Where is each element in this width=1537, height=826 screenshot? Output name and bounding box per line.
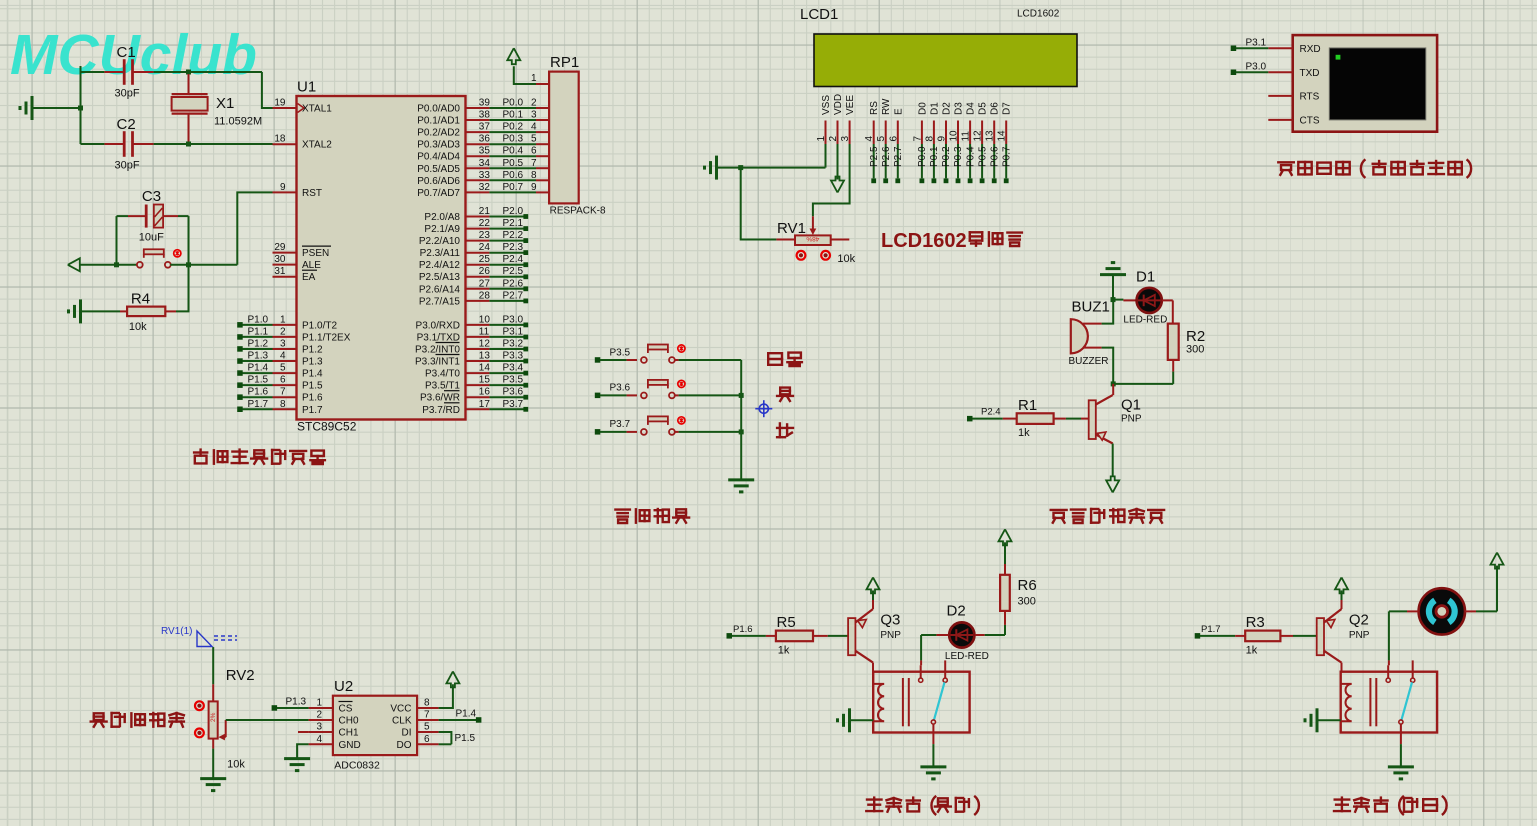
- pin 1 RP1: [536, 83, 549, 85]
- wire P0.3: [957, 144, 959, 178]
- svg-text:P3.4/T0: P3.4/T0: [425, 369, 460, 380]
- svg-text:VEE: VEE: [845, 95, 856, 115]
- pin 30 ALE: [273, 264, 297, 266]
- svg-text:7: 7: [280, 387, 286, 398]
- svg-text:P0.3: P0.3: [953, 146, 964, 167]
- svg-text:24: 24: [479, 242, 491, 253]
- pin 27 P2.6: [466, 288, 490, 290]
- svg-text:P0.1/AD1: P0.1/AD1: [417, 116, 460, 127]
- pin 24 P2.3: [466, 252, 490, 254]
- ground: [715, 156, 718, 180]
- svg-text:Q2: Q2: [1349, 612, 1369, 629]
- svg-text:6: 6: [424, 734, 430, 745]
- svg-text:10k: 10k: [837, 253, 855, 265]
- svg-text:P3.1: P3.1: [1246, 37, 1267, 48]
- resistor R6: [1000, 575, 1010, 611]
- svg-text:9: 9: [280, 182, 286, 193]
- svg-text:RST: RST: [302, 188, 322, 199]
- wire P2.7: [897, 144, 899, 178]
- svg-text:P3.2/INT0: P3.2/INT0: [415, 345, 460, 356]
- pin 8 P1.7: [273, 408, 297, 410]
- svg-text:P1.1/T2EX: P1.1/T2EX: [302, 332, 351, 343]
- svg-text:PNP: PNP: [1121, 414, 1142, 425]
- relay coil: [873, 684, 884, 721]
- svg-text:LCD1602: LCD1602: [881, 230, 967, 252]
- svg-text:P0.4/AD4: P0.4/AD4: [417, 152, 460, 163]
- svg-text:E: E: [893, 108, 904, 115]
- svg-text:P1.6: P1.6: [733, 624, 753, 635]
- svg-text:P2.2/A10: P2.2/A10: [419, 236, 461, 247]
- svg-text:P3.6: P3.6: [503, 387, 524, 398]
- pin 31 EA: [273, 276, 297, 278]
- svg-text:11: 11: [961, 131, 972, 142]
- wire coil ground: [1317, 719, 1341, 721]
- node: [186, 142, 191, 147]
- pin 19 XTAL1: [273, 107, 297, 109]
- wire VSS: [825, 144, 827, 168]
- svg-text:7: 7: [912, 136, 923, 142]
- pin 36 P0.3: [466, 143, 490, 145]
- svg-text:P0.3: P0.3: [503, 134, 524, 145]
- terminal P2.7: [489, 300, 523, 302]
- svg-text:D1: D1: [929, 102, 940, 115]
- pin 38 P0.1: [466, 119, 490, 121]
- wire P0.2: [945, 144, 947, 178]
- pin 11 P3.1: [466, 336, 490, 338]
- svg-text:37: 37: [479, 122, 491, 133]
- svg-text:32: 32: [479, 182, 491, 193]
- svg-text:P2.3/A11: P2.3/A11: [420, 248, 461, 259]
- pin 32 P0.7: [466, 191, 490, 193]
- svg-text:5: 5: [280, 363, 286, 374]
- svg-text:1k: 1k: [778, 645, 790, 657]
- svg-text:ADC0832: ADC0832: [334, 760, 380, 772]
- svg-text:P0.4: P0.4: [503, 146, 524, 157]
- wire: [1172, 360, 1174, 372]
- wire P0.5: [981, 144, 983, 178]
- svg-text:28: 28: [479, 290, 491, 301]
- svg-text:P2.1: P2.1: [503, 218, 524, 229]
- svg-text:D2: D2: [942, 102, 953, 115]
- wire: [675, 359, 679, 361]
- terminal P1.7: [1195, 633, 1201, 639]
- resistor pack RP1 RESPACK-8: [549, 72, 579, 204]
- svg-text:1: 1: [816, 136, 827, 142]
- wire: [1113, 299, 1123, 301]
- svg-text:CS: CS: [339, 704, 353, 715]
- relay contact NO: [920, 665, 922, 678]
- svg-text:P0.6: P0.6: [503, 170, 524, 181]
- wire: [1465, 610, 1476, 612]
- svg-text:26: 26: [479, 266, 491, 277]
- svg-text:1: 1: [316, 698, 322, 709]
- wire: [932, 724, 934, 744]
- pin 10 P3.0: [466, 324, 490, 326]
- wire: [675, 431, 679, 433]
- wire P0.7: [489, 191, 536, 193]
- ground: [920, 765, 946, 768]
- wire: [81, 310, 121, 312]
- svg-text:P2.5: P2.5: [503, 266, 524, 277]
- svg-text:36: 36: [479, 134, 491, 145]
- pin 17 P3.7: [466, 408, 490, 410]
- wire: [237, 192, 272, 264]
- svg-text:35: 35: [479, 146, 491, 157]
- svg-text:P3.1/TXD: P3.1/TXD: [417, 332, 460, 343]
- pin 14 P3.4: [466, 372, 490, 374]
- node: [186, 70, 191, 75]
- svg-text:R6: R6: [1018, 577, 1037, 594]
- power arrow: [1106, 476, 1119, 492]
- svg-text:P0.5/AD5: P0.5/AD5: [417, 164, 460, 175]
- svg-text:P2.1/A9: P2.1/A9: [424, 224, 460, 235]
- wire CLK: [439, 719, 476, 721]
- svg-text:P1.0/T2: P1.0/T2: [302, 320, 337, 331]
- wire base: [848, 618, 855, 655]
- svg-text:P1.7: P1.7: [1201, 624, 1221, 635]
- terminal P1.5: [237, 382, 243, 388]
- wire: [1102, 300, 1114, 324]
- svg-text:P0.7: P0.7: [1001, 146, 1012, 167]
- terminal P2.6: [489, 288, 523, 290]
- svg-text:RESPACK-8: RESPACK-8: [550, 206, 606, 217]
- svg-text:P3.3: P3.3: [503, 351, 524, 362]
- svg-text:P2.6/A14: P2.6/A14: [419, 284, 461, 295]
- svg-text:LED-RED: LED-RED: [945, 651, 989, 662]
- terminal P1.7: [237, 407, 243, 413]
- svg-text:10uF: 10uF: [139, 232, 164, 244]
- svg-text:P0.0: P0.0: [503, 98, 524, 109]
- svg-text:34: 34: [479, 158, 491, 169]
- svg-text:BUZZER: BUZZER: [1069, 356, 1109, 367]
- node: [186, 262, 191, 267]
- svg-text:P1.5: P1.5: [302, 381, 323, 392]
- push button RESET: [137, 262, 143, 268]
- wire base: [1317, 618, 1324, 655]
- svg-text:P3.7: P3.7: [610, 419, 631, 430]
- svg-text:1k: 1k: [1246, 645, 1258, 657]
- pin 33 P0.6: [466, 179, 490, 181]
- ADC pin 8 VCC: [417, 707, 439, 709]
- svg-text:C1: C1: [117, 44, 136, 61]
- svg-text:P3.1: P3.1: [503, 326, 524, 337]
- svg-text:P0.5: P0.5: [977, 146, 988, 167]
- svg-text:P0.7: P0.7: [503, 182, 524, 193]
- resistor R3: [1235, 635, 1245, 637]
- svg-text:PNP: PNP: [880, 630, 901, 641]
- svg-text:10: 10: [949, 130, 960, 142]
- svg-text:P0.1: P0.1: [503, 110, 524, 121]
- svg-text:13: 13: [985, 130, 996, 142]
- terminal P1.6: [237, 394, 243, 400]
- relay contact NC: [944, 660, 946, 677]
- wire: [1293, 635, 1317, 637]
- pin 28 P2.7: [466, 300, 490, 302]
- svg-text:P3.6/WR: P3.6/WR: [420, 393, 460, 404]
- text 继电器(通风): [1334, 796, 1447, 815]
- svg-text:PNP: PNP: [1349, 630, 1370, 641]
- svg-text:P3.5: P3.5: [503, 375, 524, 386]
- potentiometer RV2: [212, 684, 214, 701]
- svg-text:4: 4: [864, 136, 875, 142]
- wire P0.3: [489, 143, 536, 145]
- terminal P3.0: [1231, 70, 1237, 76]
- text 声光报警电路: [1051, 509, 1164, 523]
- wire: [170, 264, 237, 266]
- svg-text:PSEN: PSEN: [302, 248, 329, 259]
- wire P0.6: [993, 144, 995, 178]
- svg-text:P0.0/AD0: P0.0/AD0: [417, 104, 460, 115]
- text 减: [777, 423, 793, 437]
- wire P2.5: [873, 144, 875, 178]
- svg-text:GND: GND: [339, 740, 361, 751]
- push button P3.7: [627, 431, 637, 433]
- terminal P3.6: [595, 393, 601, 399]
- wire P0.0: [921, 144, 923, 178]
- wire VDD: [837, 144, 839, 180]
- resistor R1: [1017, 413, 1054, 424]
- node: [114, 262, 119, 267]
- wire P0.6: [489, 179, 536, 181]
- svg-text:CTS: CTS: [1300, 115, 1320, 126]
- ADC pin 2 CH0: [309, 719, 333, 721]
- svg-text:1: 1: [280, 314, 286, 325]
- svg-text:2: 2: [280, 326, 286, 337]
- terminal P1.2: [237, 346, 243, 352]
- svg-text:RXD: RXD: [1300, 44, 1321, 55]
- terminal P1.6: [727, 633, 733, 639]
- text 煤气值调节: [91, 713, 184, 727]
- power arrow: [507, 48, 520, 64]
- terminal P3.5: [595, 357, 601, 363]
- pin 39 P0.0: [466, 107, 490, 109]
- IC U1 STC89C52: [297, 96, 466, 420]
- svg-text:7: 7: [531, 158, 537, 169]
- svg-text:P1.6: P1.6: [248, 387, 269, 398]
- wire P0.2: [489, 131, 536, 133]
- svg-text:30pF: 30pF: [115, 159, 140, 171]
- transistor Q1 PNP: [1112, 384, 1114, 395]
- svg-text:VSS: VSS: [821, 95, 832, 115]
- text 设置: [768, 353, 802, 366]
- wire CH0: [226, 719, 309, 721]
- wire: [1113, 383, 1173, 385]
- terminal P3.7: [595, 429, 601, 435]
- svg-text:P2.0/A8: P2.0/A8: [424, 212, 460, 223]
- svg-text:1: 1: [531, 73, 537, 84]
- svg-text:P3.0/RXD: P3.0/RXD: [416, 320, 460, 331]
- power arrow: [446, 671, 459, 687]
- node: [78, 106, 83, 111]
- relay box: [873, 672, 969, 733]
- svg-text:P2.0: P2.0: [503, 206, 524, 217]
- node: [738, 165, 743, 170]
- pin 16 P3.6: [466, 396, 490, 398]
- svg-text:RV2: RV2: [226, 667, 255, 684]
- wire collector: [1341, 663, 1343, 672]
- svg-text:D6: D6: [990, 102, 1001, 115]
- power arrow: [1491, 553, 1504, 569]
- svg-text:P3.2: P3.2: [503, 339, 524, 350]
- wire: [212, 749, 214, 779]
- svg-text:9: 9: [937, 136, 948, 142]
- crystal X1: [188, 74, 190, 94]
- svg-text:CH0: CH0: [339, 716, 359, 727]
- svg-text:25: 25: [479, 254, 491, 265]
- svg-text:6: 6: [280, 375, 286, 386]
- svg-text:R2: R2: [1186, 328, 1205, 345]
- svg-text:Q1: Q1: [1121, 397, 1141, 414]
- terminal P1.4: [476, 717, 482, 723]
- power arrow: [68, 258, 80, 271]
- wire P0.4: [969, 144, 971, 178]
- ADC pin 4 GND: [309, 743, 333, 745]
- wire P2.6: [885, 144, 887, 178]
- power arrow: [831, 177, 844, 193]
- svg-text:10: 10: [479, 314, 491, 325]
- svg-text:30: 30: [274, 254, 286, 265]
- node: [739, 429, 744, 434]
- terminal P3.1: [1231, 46, 1237, 52]
- svg-text:6: 6: [888, 136, 899, 142]
- wire collector: [872, 663, 874, 672]
- wire: [1162, 299, 1173, 301]
- svg-text:P1.4: P1.4: [302, 369, 323, 380]
- node: [1111, 381, 1116, 386]
- potentiometer RV1: [812, 216, 814, 229]
- wire P0.5: [489, 167, 536, 169]
- wire: [262, 72, 273, 108]
- svg-text:2: 2: [828, 136, 839, 142]
- svg-text:U1: U1: [297, 79, 316, 96]
- svg-text:23: 23: [479, 230, 491, 241]
- wire emitter: [872, 600, 874, 609]
- svg-text:3: 3: [280, 339, 286, 350]
- pin 13 P3.3: [466, 360, 490, 362]
- ADC pin 5 DI: [417, 731, 439, 733]
- wire: [741, 168, 777, 240]
- svg-text:P0.2: P0.2: [941, 146, 952, 167]
- wire GND: [297, 744, 309, 758]
- resistor R5: [766, 635, 776, 637]
- svg-text:P3.4: P3.4: [503, 363, 524, 374]
- wire emitter: [1341, 600, 1343, 609]
- wire P0.1: [933, 144, 935, 178]
- relay box: [1341, 672, 1437, 733]
- wire: [80, 66, 82, 144]
- svg-text:33: 33: [479, 170, 491, 181]
- ground: [1388, 765, 1414, 768]
- svg-text:30pF: 30pF: [115, 88, 140, 100]
- svg-text:RV1: RV1: [777, 220, 806, 237]
- svg-text:RTS: RTS: [1300, 91, 1320, 102]
- svg-text:P1.2: P1.2: [302, 345, 323, 356]
- svg-text:R1: R1: [1018, 397, 1037, 414]
- terminal P3.6: [489, 396, 523, 398]
- terminal P3.0: [489, 324, 523, 326]
- terminal P1.1: [237, 334, 243, 340]
- svg-text:P0.1: P0.1: [929, 146, 940, 167]
- svg-text:C3: C3: [142, 188, 161, 205]
- wire: [32, 107, 81, 109]
- text 继电器(煤气): [866, 796, 979, 815]
- terminal P1.0: [237, 322, 243, 328]
- svg-text:P1.3: P1.3: [248, 351, 269, 362]
- terminal P2.3: [489, 252, 523, 254]
- relay contact NO: [1387, 665, 1389, 678]
- wire: [1066, 418, 1081, 420]
- svg-text:8: 8: [531, 170, 537, 181]
- wire: [80, 264, 137, 266]
- svg-text:P1.1: P1.1: [248, 326, 269, 337]
- wire coil ground: [850, 719, 874, 721]
- svg-text:X1: X1: [216, 95, 234, 112]
- pin 2 P1.1: [273, 336, 297, 338]
- node: [1111, 297, 1116, 302]
- wire P0.0: [489, 107, 536, 109]
- wire: [675, 394, 679, 396]
- ADC pin 3 stub: [298, 731, 309, 733]
- svg-text:STC89C52: STC89C52: [297, 420, 357, 434]
- svg-text:3: 3: [316, 722, 322, 733]
- terminal P3.1: [489, 336, 523, 338]
- node: [739, 393, 744, 398]
- svg-text:3: 3: [840, 136, 851, 142]
- wire: [81, 143, 105, 145]
- svg-text:TXD: TXD: [1300, 68, 1320, 79]
- svg-text:5: 5: [876, 136, 887, 142]
- svg-text:EA: EA: [302, 272, 316, 283]
- svg-text:P0.4: P0.4: [965, 146, 976, 167]
- wire: [1407, 610, 1419, 612]
- svg-text:D7: D7: [1002, 102, 1013, 115]
- wire bus: [740, 360, 742, 479]
- svg-text:P0.7/AD7: P0.7/AD7: [417, 188, 460, 199]
- svg-text:P2.6: P2.6: [503, 278, 524, 289]
- svg-text:P2.3: P2.3: [503, 242, 524, 253]
- pin 18 XTAL2: [273, 143, 297, 145]
- svg-text:2: 2: [531, 98, 537, 109]
- svg-text:P1.3: P1.3: [302, 357, 323, 368]
- svg-text:19: 19: [274, 98, 286, 109]
- svg-text:P0.2/AD2: P0.2/AD2: [417, 128, 460, 139]
- svg-text:P3.7/RD: P3.7/RD: [422, 405, 460, 416]
- svg-text:12: 12: [479, 339, 491, 350]
- svg-text:10k: 10k: [129, 321, 147, 333]
- pin 9 RST: [273, 191, 297, 193]
- svg-text:RW: RW: [881, 98, 892, 115]
- svg-text:RV1(1): RV1(1): [161, 626, 193, 637]
- wire: [514, 66, 536, 84]
- relay switch blade: [934, 682, 945, 720]
- svg-text:LED-RED: LED-RED: [1123, 315, 1167, 326]
- LED D1: [1137, 288, 1162, 313]
- wire: [1004, 564, 1006, 575]
- svg-text:300: 300: [1018, 596, 1036, 608]
- terminal P3.2: [489, 348, 523, 350]
- ground: [284, 757, 310, 760]
- svg-text:27: 27: [479, 278, 491, 289]
- svg-text:P3.5/T1: P3.5/T1: [425, 381, 460, 392]
- svg-text:BUZ1: BUZ1: [1072, 299, 1110, 316]
- svg-text:P2.5: P2.5: [869, 146, 880, 167]
- svg-text:13: 13: [479, 351, 491, 362]
- svg-text:9: 9: [531, 182, 537, 193]
- svg-text:P2.4/A12: P2.4/A12: [419, 260, 461, 271]
- svg-text:2: 2: [316, 710, 322, 721]
- svg-text:5: 5: [424, 722, 430, 733]
- LED D2: [949, 622, 974, 647]
